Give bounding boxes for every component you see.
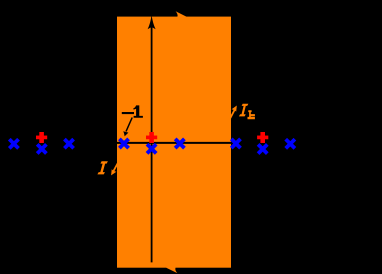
pole x at -1	[119, 139, 128, 148]
label I_k : subscript k	[248, 110, 255, 119]
zero + at +4	[257, 132, 268, 143]
imaginary axis arrowhead	[148, 15, 156, 29]
pole x at -3	[64, 139, 73, 148]
label -1 : minus sign	[122, 112, 134, 114]
pole x at +5	[286, 139, 295, 148]
label -1 pointer arrow	[126, 118, 132, 132]
shaded strip region	[117, 17, 231, 268]
imaginary axis	[151, 27, 153, 262]
real axis	[108, 142, 238, 144]
contour arrow bottom edge (left-pointing)	[166, 262, 177, 273]
pole x below axis at 0	[147, 144, 156, 153]
pole x at -5	[9, 139, 18, 148]
label I_k : letter I	[239, 104, 249, 117]
pole x at +3	[231, 139, 240, 148]
arrow to label I_k	[228, 109, 236, 124]
zero + at -4	[36, 132, 47, 143]
arrow to label I	[113, 160, 120, 172]
contour arrow top edge (right-pointing)	[176, 11, 187, 22]
label I	[97, 161, 108, 174]
pole x below axis at +4	[258, 144, 267, 153]
label -1 : digit 1	[133, 105, 143, 117]
pole x below axis at -4	[37, 144, 46, 153]
zero + at 0	[146, 132, 157, 143]
pole x at +1	[175, 139, 184, 148]
